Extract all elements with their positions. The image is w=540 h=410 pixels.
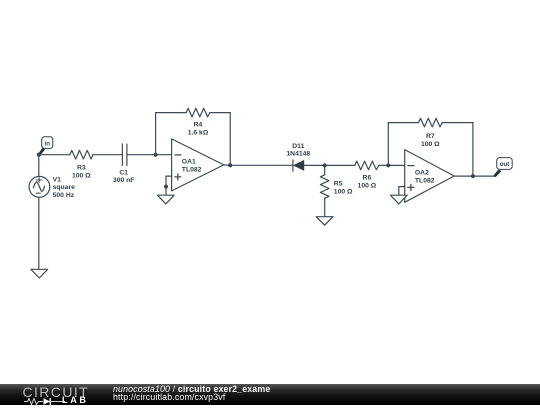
svg-text:TL082: TL082	[415, 177, 435, 184]
svg-text:in: in	[45, 140, 51, 147]
svg-text:D11: D11	[292, 143, 304, 150]
resistor R4	[186, 108, 210, 117]
wire OA2 plus input to ground	[399, 187, 405, 196]
ground R5	[316, 217, 333, 226]
wire node C to R5	[324, 165, 326, 174]
source V1	[29, 176, 50, 197]
op-amp OA2	[405, 150, 455, 203]
wire feedback left vertical	[155, 113, 157, 155]
svg-text:100 Ω: 100 Ω	[72, 172, 91, 179]
CircuitLab logo	[22, 385, 97, 405]
node OA1 output junction	[228, 163, 232, 167]
resistor R7	[419, 118, 443, 127]
label R3 value	[72, 165, 91, 180]
wire OA1 output	[224, 164, 293, 166]
label D11 value	[286, 143, 310, 158]
wire node B to OA1 inverting input	[156, 154, 172, 156]
svg-text:100 Ω: 100 Ω	[421, 141, 440, 148]
label R6 value	[358, 174, 377, 189]
resistor R3	[70, 150, 93, 159]
svg-text:100 Ω: 100 Ω	[334, 189, 353, 196]
node in flag	[38, 137, 53, 156]
svg-text:1N4148: 1N4148	[286, 151, 310, 158]
svg-text:square: square	[53, 184, 76, 191]
op-amp OA1	[172, 139, 224, 191]
node OA2 output junction	[471, 174, 475, 178]
svg-text:out: out	[500, 161, 510, 168]
ground OA1	[157, 195, 174, 204]
wire R6 to OA2 inverting input	[379, 164, 405, 166]
wire OA2 feedback left vertical	[387, 123, 389, 166]
svg-text:R5: R5	[334, 180, 343, 187]
wire OA2 feedback top left	[388, 122, 418, 124]
label V1 value	[53, 176, 76, 199]
ground OA2	[390, 195, 407, 204]
wire OA1 plus input to ground	[166, 176, 172, 195]
label R7 value	[421, 133, 440, 148]
wire V1 bottom	[38, 198, 40, 270]
label OA2	[415, 170, 435, 185]
svg-text:OA2: OA2	[415, 170, 429, 177]
capacitor C1	[122, 144, 127, 166]
label R5 value	[334, 180, 353, 195]
node out flag	[494, 158, 513, 178]
footer title text	[113, 386, 270, 401]
diode D11	[293, 160, 304, 171]
svg-text:C1: C1	[119, 169, 128, 176]
label OA1	[182, 159, 202, 174]
node A junction	[37, 153, 41, 157]
node B junction	[154, 153, 158, 157]
wire feedback top left	[156, 112, 187, 114]
svg-text:R3: R3	[77, 165, 86, 172]
wire feedback top right	[210, 112, 230, 114]
wire main left horizontal	[39, 154, 70, 156]
resistor R6	[355, 161, 379, 170]
wire D11 to node C	[304, 164, 325, 166]
wire V1 top	[38, 155, 40, 177]
svg-text:TL082: TL082	[182, 166, 202, 173]
wire R3 to C1	[93, 154, 122, 156]
svg-text:300 nF: 300 nF	[113, 177, 135, 184]
wire OA2 feedback top right	[442, 122, 473, 124]
svg-text:R7: R7	[426, 133, 435, 140]
resistor R5	[320, 175, 329, 199]
ground V1	[31, 269, 48, 278]
wire feedback right vertical	[229, 113, 231, 166]
footer bar	[0, 384, 540, 405]
wire C1 to node B	[127, 154, 156, 156]
wire OA2 output	[454, 175, 494, 177]
node C junction	[323, 163, 327, 167]
label R4 value	[188, 122, 209, 137]
wire R5 to ground	[324, 198, 326, 216]
svg-text:100 Ω: 100 Ω	[358, 182, 377, 189]
wire node C to R6	[325, 164, 355, 166]
svg-text:OA1: OA1	[182, 159, 196, 166]
svg-text:500 Hz: 500 Hz	[53, 192, 75, 199]
wire OA2 feedback right vertical	[472, 123, 474, 177]
node OA1 ground junction	[164, 185, 168, 189]
svg-text:R4: R4	[194, 122, 203, 129]
svg-text:1.6 kΩ: 1.6 kΩ	[188, 129, 209, 136]
node D junction	[386, 163, 390, 167]
svg-text:V1: V1	[53, 176, 62, 183]
svg-text:R6: R6	[363, 174, 372, 181]
label C1 value	[113, 169, 135, 184]
